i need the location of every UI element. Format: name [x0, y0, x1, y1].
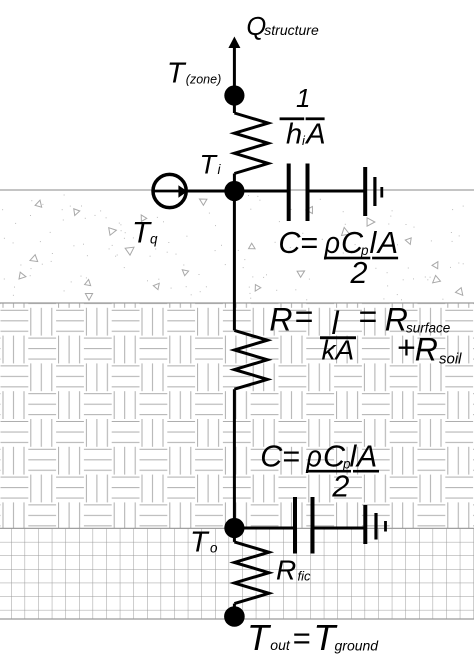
svg-text:soil: soil: [439, 351, 462, 368]
svg-text:2: 2: [350, 256, 368, 290]
svg-text:T: T: [247, 617, 272, 658]
svg-text:(zone): (zone): [186, 72, 221, 86]
svg-text:=: =: [292, 621, 310, 656]
svg-text:h: h: [286, 119, 302, 151]
svg-text:1: 1: [296, 83, 310, 113]
svg-text:=: =: [294, 299, 313, 335]
svg-text:fic: fic: [298, 569, 312, 584]
svg-text:out: out: [270, 637, 291, 653]
svg-text:q: q: [150, 232, 158, 247]
svg-text:R: R: [269, 302, 292, 338]
svg-text:=: =: [358, 299, 377, 335]
svg-text:R: R: [415, 332, 438, 368]
svg-text:structure: structure: [264, 22, 319, 38]
svg-text:T: T: [132, 217, 152, 250]
svg-text:R: R: [276, 555, 296, 586]
svg-text:A: A: [355, 440, 377, 474]
svg-text:T: T: [200, 150, 219, 180]
svg-text:ρ: ρ: [324, 226, 340, 260]
svg-text:=: =: [300, 226, 318, 260]
svg-text:+: +: [397, 330, 416, 366]
svg-text:C: C: [278, 226, 301, 260]
svg-text:A: A: [334, 335, 355, 366]
svg-text:T: T: [190, 527, 210, 559]
svg-text:2: 2: [331, 469, 349, 503]
svg-text:o: o: [210, 541, 218, 556]
svg-text:Q: Q: [246, 13, 266, 41]
svg-text:T: T: [167, 58, 187, 90]
svg-text:C: C: [260, 440, 283, 474]
svg-text:=: =: [282, 440, 300, 474]
svg-text:ground: ground: [335, 638, 380, 654]
svg-text:A: A: [376, 226, 398, 260]
svg-text:ρ: ρ: [306, 440, 322, 474]
svg-text:A: A: [304, 119, 325, 151]
